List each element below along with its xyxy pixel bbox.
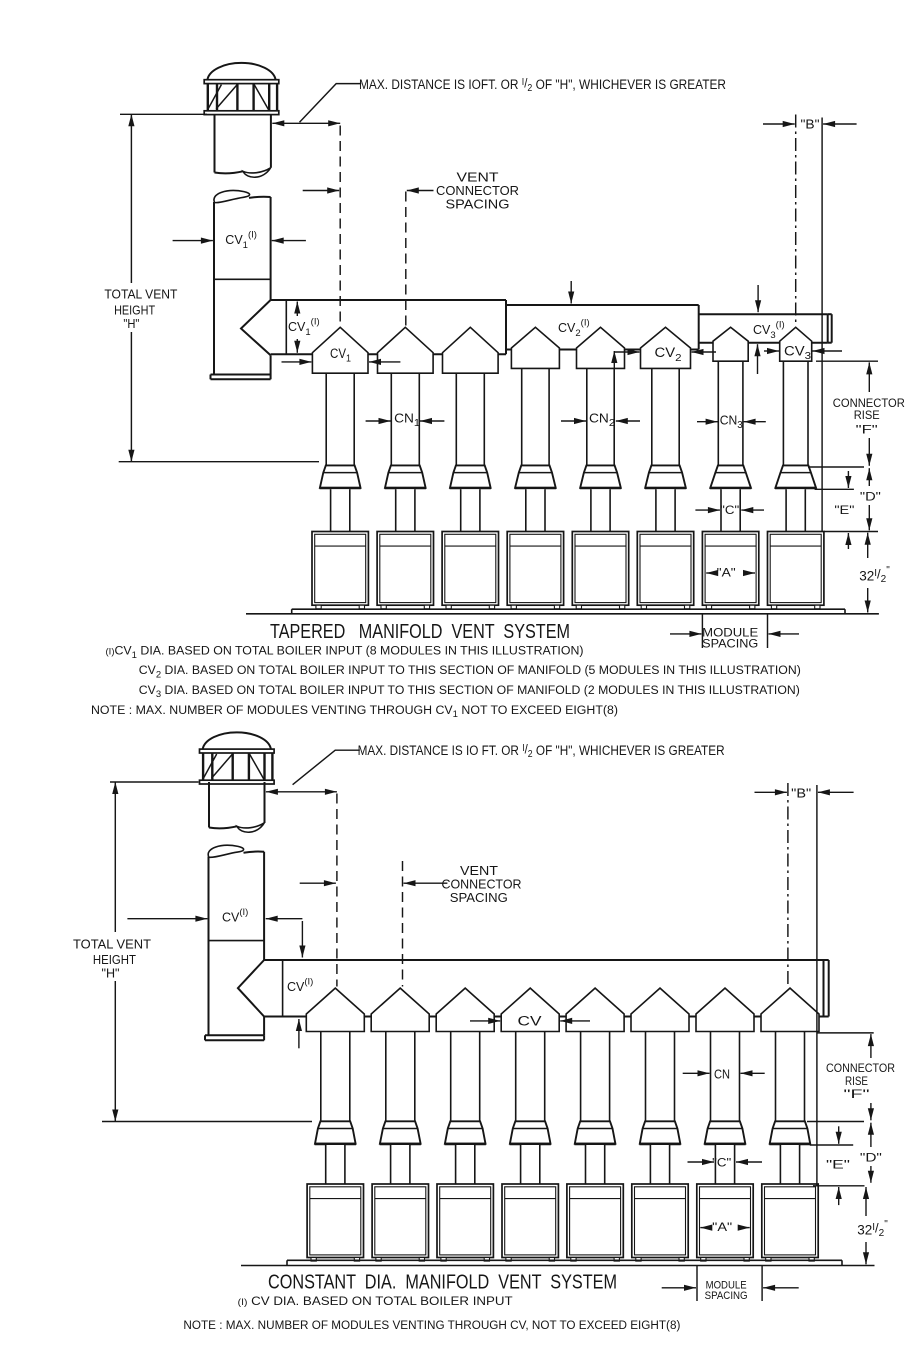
- svg-text:"H": "H": [123, 317, 139, 331]
- svg-text:TOTAL VENT: TOTAL VENT: [104, 288, 177, 302]
- svg-text:"C": "C": [720, 503, 739, 517]
- svg-text:SPACING: SPACING: [702, 637, 758, 651]
- svg-text:(I) CV DIA. BASED ON TOTAL B: (I) CV DIA. BASED ON TOTAL BOILER INPUT: [238, 1294, 514, 1308]
- svg-text:"E": "E": [834, 503, 854, 517]
- svg-text:SPACING: SPACING: [446, 198, 510, 212]
- svg-text:"C": "C": [712, 1156, 731, 1170]
- svg-text:RISE: RISE: [854, 408, 880, 422]
- svg-text:"F": "F": [844, 1087, 870, 1101]
- svg-text:"A": "A": [717, 566, 736, 580]
- svg-text:"H": "H": [102, 966, 120, 980]
- svg-text:SPACING: SPACING: [705, 1290, 748, 1302]
- svg-text:"B": "B": [791, 787, 811, 801]
- svg-text:CONNECTOR: CONNECTOR: [826, 1061, 895, 1075]
- svg-text:CONNECTOR: CONNECTOR: [436, 184, 519, 198]
- svg-text:"B": "B": [801, 118, 820, 132]
- svg-text:"F": "F": [856, 423, 878, 437]
- svg-text:TOTAL VENT: TOTAL VENT: [73, 937, 151, 951]
- svg-text:VENT: VENT: [460, 864, 498, 878]
- svg-text:CONNECTOR: CONNECTOR: [442, 878, 522, 892]
- svg-text:HEIGHT: HEIGHT: [114, 304, 155, 318]
- svg-text:"A": "A": [712, 1220, 732, 1234]
- svg-text:TAPERED MANIFOLD VENT SYST: TAPERED MANIFOLD VENT SYSTEM: [270, 620, 570, 643]
- svg-text:HEIGHT: HEIGHT: [93, 953, 136, 967]
- svg-text:CV: CV: [518, 1014, 542, 1029]
- svg-text:"E": "E": [826, 1158, 850, 1172]
- svg-text:CN: CN: [714, 1068, 730, 1082]
- svg-text:MAX. DISTANCE IS IO FT. OR I/: MAX. DISTANCE IS IO FT. OR I/2 OF "H", W…: [358, 742, 725, 761]
- svg-text:"D": "D": [860, 490, 881, 504]
- svg-text:SPACING: SPACING: [450, 891, 508, 905]
- svg-text:"D": "D": [860, 1151, 882, 1165]
- svg-text:VENT: VENT: [457, 171, 499, 185]
- svg-text:MAX. DISTANCE IS IOFT. OR I/2: MAX. DISTANCE IS IOFT. OR I/2 OF "H", WH…: [359, 76, 726, 95]
- svg-text:NOTE : MAX. NUMBER OF MODUL: NOTE : MAX. NUMBER OF MODULES VENTING TH…: [183, 1318, 680, 1332]
- svg-text:RISE: RISE: [845, 1074, 868, 1088]
- svg-text:CONSTANT DIA. MANIFOLD VENT: CONSTANT DIA. MANIFOLD VENT SYSTEM: [268, 1271, 617, 1294]
